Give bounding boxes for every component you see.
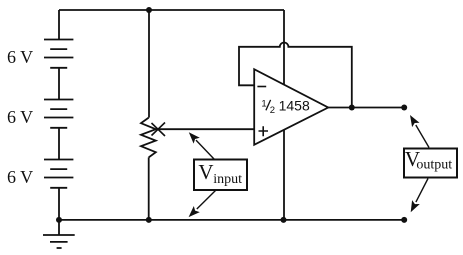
wire potentiometer top lead bbox=[148, 10, 150, 118]
battery B2 6V bbox=[44, 100, 73, 128]
svg-text:6 V: 6 V bbox=[7, 107, 33, 127]
op-amp U1 triangle bbox=[254, 69, 328, 145]
node junction battery / bottom rail bbox=[56, 217, 62, 223]
svg-text:2: 2 bbox=[270, 105, 275, 116]
label box V_output bbox=[404, 149, 457, 178]
wire potentiometer bottom lead bbox=[148, 157, 150, 220]
ground bbox=[43, 235, 75, 248]
svg-text:6 V: 6 V bbox=[7, 167, 33, 187]
node junction top rail / potentiometer bbox=[146, 7, 152, 13]
wire op-amp output bbox=[328, 107, 404, 109]
node junction op-amp output / feedback bbox=[349, 105, 355, 111]
node junction potentiometer bottom / bottom rail bbox=[146, 217, 152, 223]
op-amp U1 minus sign bbox=[257, 86, 266, 88]
node junction V- drop / bottom rail bbox=[281, 217, 287, 223]
battery B1 6V bbox=[44, 40, 73, 68]
potentiometer wiper arrow barbs bbox=[152, 123, 166, 137]
potentiometer R1 zigzag bbox=[141, 118, 156, 158]
svg-text:6 V: 6 V bbox=[7, 47, 33, 67]
battery B3 6V bbox=[44, 160, 73, 188]
svg-text:1458: 1458 bbox=[279, 98, 310, 114]
arrow V_input to wiper wire bbox=[189, 132, 215, 159]
svg-text:input: input bbox=[213, 172, 242, 187]
arrow V_output to output terminal bottom bbox=[411, 179, 428, 213]
wire V- supply drop to bottom rail bbox=[283, 130, 285, 220]
arrow V_input to bottom rail bbox=[189, 191, 216, 218]
wire wiper to op-amp noninverting input bbox=[156, 128, 254, 130]
wire V+ supply drop to op-amp top edge bbox=[283, 10, 285, 85]
label box V_input bbox=[194, 160, 247, 191]
op-amp U1 plus sign bbox=[259, 126, 269, 136]
svg-text:1: 1 bbox=[261, 99, 266, 110]
label 1/2 slash bbox=[266, 100, 271, 110]
arrow V_output to output terminal top bbox=[410, 115, 429, 148]
wire top rail bbox=[59, 9, 284, 11]
svg-text:V: V bbox=[198, 160, 213, 184]
node output terminal bottom bbox=[401, 217, 407, 223]
svg-text:output: output bbox=[416, 158, 452, 173]
wire feedback loop with hop over V+ drop bbox=[239, 42, 352, 107]
wire battery column stubs bbox=[58, 10, 60, 235]
wire bottom rail bbox=[59, 219, 404, 221]
node output terminal top bbox=[401, 105, 407, 111]
